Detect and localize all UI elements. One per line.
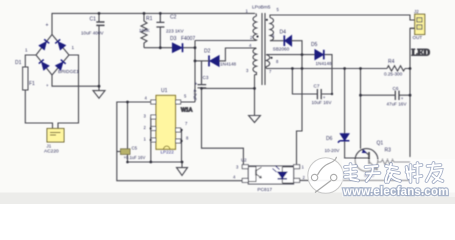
wire Q1 collector vertical (360, 69, 362, 149)
svg-text:W1A: W1A (181, 108, 193, 114)
wire J2 vertical (410, 28, 415, 157)
wire rail2 (266, 68, 410, 70)
resistor R3 (378, 160, 410, 165)
wire D2 anode to aux pin4 (219, 48, 256, 61)
transformer T1 core (262, 13, 265, 85)
diode D5 (315, 50, 323, 60)
svg-text:D3: D3 (170, 36, 177, 42)
svg-text:C1: C1 (90, 17, 97, 23)
svg-text:10uF 400V: 10uF 400V (81, 31, 104, 36)
wire C7 loop (292, 69, 332, 95)
svg-text:D5: D5 (311, 42, 318, 48)
svg-text:+0.1uF 16V: +0.1uF 16V (124, 155, 146, 160)
wire C6 row (361, 94, 411, 96)
resistor R4 (387, 66, 405, 71)
svg-text:F1: F1 (29, 81, 35, 87)
ground aux (249, 116, 261, 123)
ground U1 (177, 162, 188, 175)
wire D5 row (266, 55, 332, 94)
U1 left pins bus (151, 117, 156, 162)
svg-text:C5: C5 (132, 146, 138, 151)
diode D3 (173, 43, 182, 52)
svg-text:LP222: LP222 (161, 150, 175, 155)
wire primary pin2 row (195, 40, 256, 42)
svg-text:U2: U2 (241, 158, 247, 163)
svg-text:223 1KV: 223 1KV (166, 29, 185, 34)
svg-text:100K: 100K (139, 28, 151, 33)
svg-text:47uF 16V: 47uF 16V (387, 102, 408, 107)
U2 phototransistor (248, 167, 261, 182)
svg-text:OUT: OUT (413, 35, 423, 40)
wire aux pin3 (255, 74, 257, 76)
svg-text:+: + (195, 82, 198, 88)
svg-text:C6: C6 (393, 86, 399, 91)
svg-text:D6: D6 (326, 136, 333, 142)
bridge BRIDGE1 diamond (36, 35, 69, 76)
bridge diode TL (39, 39, 66, 70)
wire C3 down to U2 pin3 (202, 88, 244, 164)
svg-text:LPoBm5: LPoBm5 (252, 5, 271, 11)
svg-text:R1: R1 (146, 16, 153, 22)
diode D2 (210, 56, 219, 66)
svg-text:BRIDGE1: BRIDGE1 (58, 69, 79, 75)
svg-text:C3: C3 (203, 75, 209, 80)
svg-text:10uF 16V: 10uF 16V (312, 100, 333, 105)
svg-text:Q1: Q1 (377, 141, 384, 147)
wire drain vertical (180, 41, 195, 103)
AC220 connector J1 (47, 129, 64, 143)
optocoupler U2 box (248, 166, 293, 184)
U1 right pins bus (176, 130, 182, 162)
wire D4 down to U2 pin1 (292, 41, 303, 167)
capacitor C3 (198, 61, 207, 88)
IC U1 body (156, 95, 176, 149)
watermark glyphs dian zi fa shao you (345, 163, 443, 182)
wire U1 pin4 row + left outer loop (117, 102, 242, 181)
wire U1 gnd rail (128, 161, 183, 163)
wire snubber row (144, 47, 195, 49)
svg-text:U1: U1 (161, 88, 168, 94)
wire bridge left to fuse (25, 55, 36, 67)
diode D4 (285, 36, 292, 46)
ground primary (93, 86, 105, 98)
capacitor C2 (156, 13, 164, 47)
svg-text:J2: J2 (414, 9, 419, 14)
watermark wash (342, 159, 455, 197)
svg-text:D4: D4 (280, 30, 287, 36)
wire bridge bottom to gnd rail (52, 75, 99, 86)
bridge diode BL (42, 62, 49, 70)
capacitor C7 (317, 89, 321, 99)
svg-text:R4: R4 (388, 59, 395, 65)
wire bridge right down (58, 55, 79, 129)
svg-text:+: + (401, 96, 404, 101)
svg-text:D2: D2 (204, 49, 211, 55)
transformer aux winding (253, 48, 257, 74)
svg-text:LED: LED (412, 48, 431, 58)
capacitor C6 (395, 91, 399, 100)
svg-text:+: + (46, 23, 49, 29)
wire secondary top rail (270, 15, 415, 20)
svg-text:F4007: F4007 (181, 36, 195, 42)
U1 pin stubs (151, 100, 181, 143)
wire top rail (52, 13, 255, 34)
svg-text:10-20V: 10-20V (325, 148, 341, 153)
svg-text:D1: D1 (15, 60, 22, 66)
svg-text:0.25-300: 0.25-300 (384, 71, 403, 76)
svg-text:+: + (323, 95, 326, 100)
svg-text:1: 1 (72, 45, 75, 50)
bridge diode BR (56, 62, 63, 70)
wire U2 pin2 row to right (300, 179, 410, 181)
watermark logo circle (308, 158, 344, 194)
capacitor C1 (96, 22, 104, 25)
bridge diode TR (58, 42, 65, 50)
svg-text:R3: R3 (385, 148, 392, 154)
fuse F1 (23, 67, 28, 90)
svg-text:C7: C7 (314, 84, 320, 89)
watermark (308, 157, 455, 198)
svg-text:SB2060: SB2060 (273, 47, 290, 52)
svg-text:C2: C2 (170, 15, 177, 21)
U2 LED (278, 172, 287, 178)
svg-text:4.7uF: 4.7uF (193, 89, 198, 101)
svg-text:+: + (46, 83, 49, 88)
svg-text:PC817: PC817 (257, 187, 272, 193)
svg-text:1N4148: 1N4148 (220, 62, 237, 67)
resistor R1 (141, 13, 147, 47)
svg-text:1N4148: 1N4148 (316, 61, 333, 66)
connector J2 (415, 14, 425, 34)
wire D6 vertical (345, 69, 369, 159)
wire secondary pin6 to D4 (270, 40, 284, 42)
zener D6 (340, 134, 349, 140)
svg-text:1: 1 (25, 48, 28, 53)
wire C5 branch to gnd rail (127, 102, 129, 162)
transformer primary winding (253, 13, 257, 40)
svg-text:J1: J1 (47, 144, 52, 149)
wire C1 stem (98, 13, 100, 86)
svg-text:AC220: AC220 (44, 149, 59, 155)
transistor Q1 (355, 149, 378, 172)
capacitor C5 (117, 151, 121, 153)
transformer secondary winding 1 (270, 18, 274, 41)
svg-text:www.elecfans.com: www.elecfans.com (342, 186, 449, 198)
wire C3 to gnd (202, 75, 255, 116)
transformer secondary winding 2 (266, 55, 270, 69)
